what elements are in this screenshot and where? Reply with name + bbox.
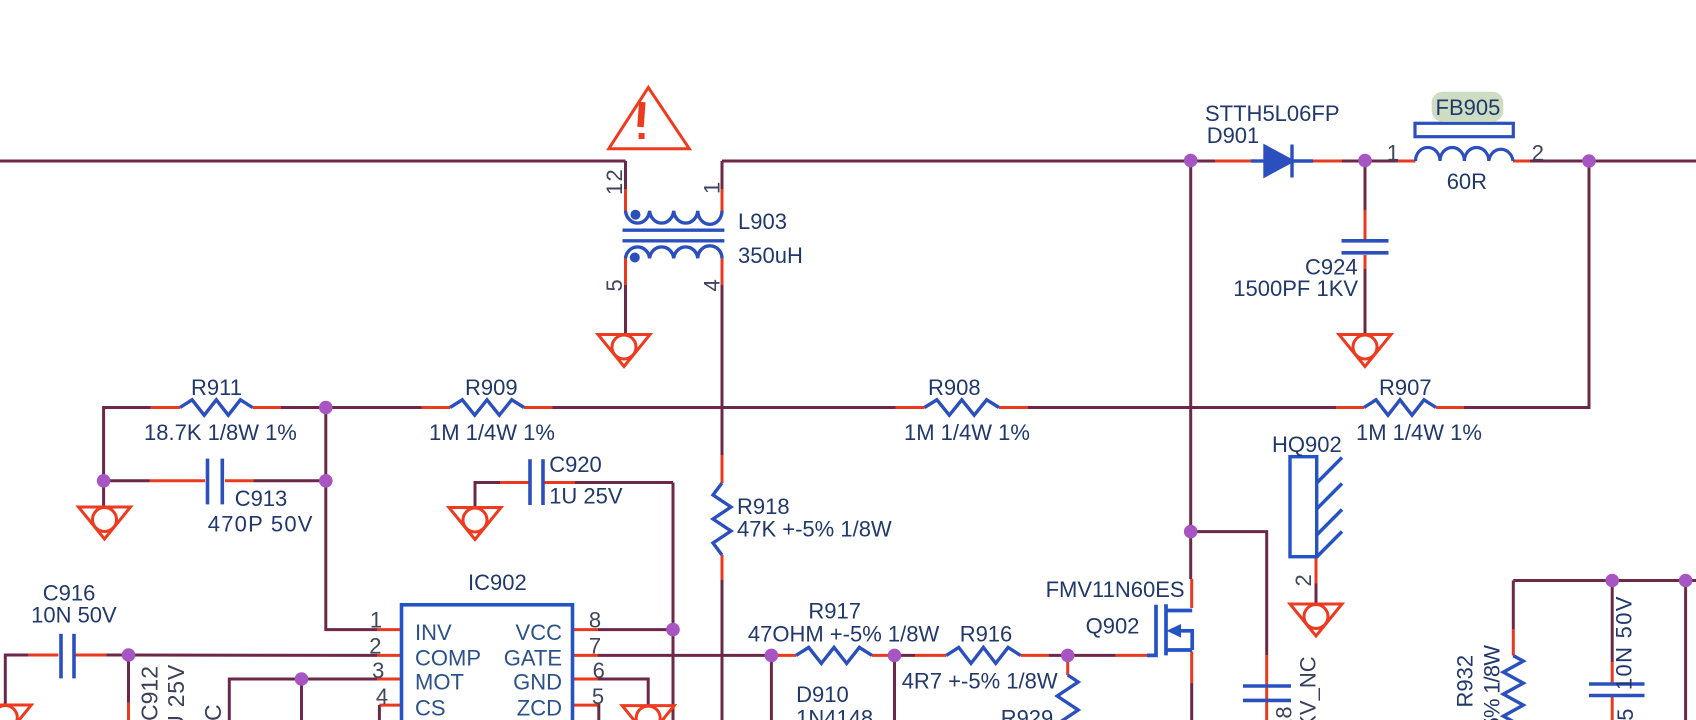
- ground C924: [1339, 335, 1391, 367]
- resistor R916: [946, 647, 1020, 663]
- wire C916 right to node D: [106, 654, 128, 657]
- ferrite bead FB905: [1415, 123, 1513, 161]
- wire L903 pin5 to ground: [624, 285, 627, 335]
- wire C918 top red lead: [1265, 655, 1268, 686]
- wire node B down to IC pin1: [326, 481, 377, 630]
- node D910 junction: [765, 649, 779, 663]
- wire C915 top red lead: [1611, 662, 1614, 684]
- wire R911 left red lead: [151, 406, 180, 409]
- wire R932 corner down maroon: [1512, 581, 1515, 630]
- wire C913 left lead maroon: [104, 479, 150, 482]
- svg-text:350uH: 350uH: [738, 243, 803, 268]
- wire R918 bottom vertical: [721, 580, 724, 720]
- svg-text:2KV_NC: 2KV_NC: [1296, 656, 1321, 720]
- wire IC pin3 branch: [229, 679, 377, 720]
- svg-text:COMP: COMP: [415, 646, 481, 671]
- node E junction pin3: [295, 672, 309, 686]
- svg-text:4: 4: [700, 279, 725, 291]
- capacitor C918: [1243, 686, 1291, 700]
- resistor R908: [925, 400, 1000, 415]
- wire C924 top maroon: [1364, 161, 1367, 210]
- wire C924 top red lead: [1364, 210, 1367, 239]
- wire R909 right red lead: [524, 406, 553, 409]
- svg-text:GND: GND: [513, 670, 562, 695]
- ground C916: [0, 705, 31, 720]
- wire C918 bottom red: [1265, 700, 1268, 720]
- svg-text:VCC: VCC: [516, 620, 563, 645]
- svg-text:10N 50V: 10N 50V: [31, 603, 117, 628]
- node H junction: [888, 649, 902, 663]
- svg-text:GATE: GATE: [504, 646, 562, 671]
- svg-text:1M 1/4W 1%: 1M 1/4W 1%: [1356, 420, 1482, 445]
- wire node D to IC pin2: [129, 654, 378, 657]
- svg-text:4R7 +-5% 1/8W: 4R7 +-5% 1/8W: [902, 669, 1058, 694]
- wire C913 ground drop: [102, 481, 105, 507]
- node A junction: [319, 401, 333, 415]
- wire C920 right lead maroon: [575, 481, 673, 484]
- wire L903 pin1 drop maroon: [721, 161, 724, 189]
- wire node H branch down: [893, 655, 896, 720]
- warning triangle: [609, 88, 690, 149]
- wire L903 pin5 red lead: [624, 256, 627, 285]
- svg-text:5: 5: [602, 279, 627, 291]
- svg-text:2: 2: [1532, 141, 1544, 166]
- capacitor C924: [1342, 241, 1389, 253]
- wire IC pin7 red stub: [573, 654, 599, 657]
- svg-text:1: 1: [700, 182, 725, 194]
- node C913 left junction: [97, 474, 111, 488]
- svg-text:1: 1: [370, 608, 382, 633]
- diode D901: [1251, 145, 1313, 178]
- node B junction: [319, 474, 333, 488]
- svg-text:R929: R929: [1001, 706, 1054, 720]
- svg-text:C913: C913: [235, 486, 288, 511]
- node G junction: [1184, 525, 1198, 539]
- resistor R929: [1057, 675, 1078, 720]
- wire R909 to R908: [553, 406, 896, 409]
- wire C913 right to node B: [254, 479, 326, 482]
- svg-text:18.7K 1/8W 1%: 18.7K 1/8W 1%: [144, 420, 297, 445]
- wire IC pin4 red stub: [379, 704, 402, 707]
- svg-text:47K +-5% 1/8W: 47K +-5% 1/8W: [737, 517, 892, 542]
- wire C920 left corner to ground: [475, 483, 500, 508]
- wire node G down to Q902 drain maroon: [1189, 532, 1192, 579]
- svg-text:FB905: FB905: [1436, 95, 1501, 120]
- svg-text:60R: 60R: [1447, 169, 1487, 194]
- node D junction C916: [122, 648, 136, 662]
- wire R908 to R907: [1028, 406, 1336, 409]
- svg-text:C: C: [200, 703, 226, 720]
- wire R908 right red lead: [999, 406, 1028, 409]
- wire R907 left red lead: [1336, 406, 1364, 409]
- svg-text:1U 25V: 1U 25V: [549, 484, 623, 509]
- ground C913: [79, 507, 131, 539]
- wire R929 top red lead: [1066, 655, 1069, 675]
- svg-text:INV: INV: [415, 620, 452, 645]
- node C junction pin8: [666, 623, 680, 637]
- wire L903 pin12 drop maroon: [624, 161, 627, 189]
- wire node cathode to FB905: [1342, 160, 1398, 163]
- svg-text:D910: D910: [796, 682, 849, 707]
- wire C924 to ground: [1364, 269, 1367, 335]
- wire node A to R909: [326, 406, 422, 409]
- svg-text:C915: C915: [1613, 707, 1638, 720]
- wire main vertical from node F: [1189, 161, 1192, 532]
- svg-text:5: 5: [592, 684, 604, 709]
- svg-text:R909: R909: [465, 375, 518, 400]
- wire C918 mid red: [1265, 686, 1268, 700]
- wire R917 left red lead: [775, 654, 796, 657]
- wire IC pin2 red stub: [377, 654, 402, 657]
- wire Q902 drain red lead: [1190, 579, 1193, 608]
- wire D901 cathode red lead: [1313, 160, 1342, 163]
- svg-text:R932: R932: [1453, 655, 1478, 708]
- inductor L903: [623, 210, 725, 263]
- wire R907 right red lead: [1436, 406, 1464, 409]
- svg-text:1M 1/4W 1%: 1M 1/4W 1%: [429, 420, 555, 445]
- heatsink HQ902: [1290, 457, 1342, 557]
- wire FB905 pin2 red lead: [1513, 160, 1530, 163]
- wire IC pin8 red stub: [573, 628, 599, 631]
- wire IC pin8 to node C: [598, 628, 673, 631]
- wire D910 branch down: [770, 655, 773, 720]
- svg-text:R916: R916: [960, 622, 1013, 647]
- wire IC pin6 to ground: [598, 679, 648, 706]
- wire IC pin3 red stub: [377, 678, 402, 681]
- wire R932 top red lead: [1512, 629, 1515, 656]
- wire IC pin5 drop: [597, 705, 601, 720]
- svg-text:ZCD: ZCD: [517, 695, 562, 720]
- wire right branch down to R907: [1464, 161, 1589, 408]
- ground L903 pin5: [598, 335, 650, 367]
- svg-text:C920: C920: [549, 452, 602, 477]
- svg-text:6: 6: [593, 658, 605, 683]
- svg-text:R908: R908: [928, 375, 981, 400]
- FB905 green highlight: [1432, 92, 1504, 122]
- node FB right junction: [1582, 154, 1596, 168]
- svg-text:+-5% 1/8W: +-5% 1/8W: [1480, 645, 1505, 720]
- wire R916 right red lead: [1021, 654, 1049, 657]
- wire right edge vertical: [1684, 581, 1687, 720]
- wire IC pin4 drop: [378, 705, 381, 720]
- wire Q902 source down: [1190, 683, 1193, 720]
- svg-text:R907: R907: [1379, 375, 1432, 400]
- wire R916 left red lead: [915, 654, 946, 657]
- wire main bus middle segment: [722, 160, 1215, 163]
- svg-text:R917: R917: [808, 599, 861, 624]
- wire main bus right segment: [1530, 160, 1696, 163]
- capacitor C915: [1589, 684, 1645, 696]
- wire R911 right red lead: [253, 406, 282, 409]
- wire D901 anode red lead: [1215, 160, 1251, 163]
- wire Q902 source red lead: [1190, 652, 1193, 684]
- node C915 junction: [1605, 574, 1619, 588]
- wire C915 drop maroon: [1611, 581, 1614, 663]
- svg-text:D901: D901: [1207, 123, 1260, 148]
- resistor R917: [796, 647, 872, 663]
- resistor R932: [1503, 656, 1523, 720]
- svg-text:1U 25V: 1U 25V: [163, 664, 189, 720]
- svg-text:4: 4: [376, 684, 388, 709]
- node F junction: [1184, 154, 1198, 168]
- svg-text:Q902: Q902: [1086, 614, 1140, 639]
- wire C912 red stub: [127, 703, 130, 720]
- svg-text:1: 1: [1387, 141, 1399, 166]
- svg-text:7: 7: [589, 634, 601, 659]
- wire node A down to node B: [324, 408, 327, 481]
- node I junction: [1061, 649, 1075, 663]
- svg-text:HQ902: HQ902: [1272, 432, 1342, 457]
- wire Q902 gate red lead: [1116, 654, 1147, 657]
- wire C916 ground corner: [5, 655, 28, 705]
- capacitor C920: [530, 459, 543, 505]
- wire FB905 pin1 red lead: [1398, 160, 1416, 163]
- svg-text:R918: R918: [737, 494, 790, 519]
- wire C913 right red lead: [225, 479, 254, 482]
- svg-text:10N 50V: 10N 50V: [1612, 595, 1637, 690]
- wire R917 right red lead: [872, 654, 895, 657]
- wire IC pin5 red stub: [573, 704, 599, 707]
- wire L903 pin4 down to R918: [721, 285, 724, 455]
- capacitor C913: [208, 459, 223, 505]
- svg-text:CS: CS: [415, 695, 446, 720]
- wire IC pin1 red stub: [377, 628, 402, 631]
- wire L903 pin1 red lead: [721, 189, 724, 211]
- svg-text:R911: R911: [191, 375, 242, 400]
- svg-text:1500PF 1KV: 1500PF 1KV: [1233, 276, 1358, 301]
- wire L903 pin4 red lead: [721, 256, 724, 285]
- wire C915 bottom red lead: [1611, 696, 1614, 720]
- svg-text:C912: C912: [136, 666, 162, 720]
- svg-text:1M 1/4W 1%: 1M 1/4W 1%: [904, 420, 1030, 445]
- svg-text:2: 2: [369, 634, 381, 659]
- node right edge junction: [1679, 574, 1693, 588]
- wire HQ902 pin2 to ground: [1315, 584, 1318, 605]
- wire R911 left corner down: [104, 408, 151, 481]
- wire main bus left segment: [0, 160, 626, 163]
- wire C920 right red lead: [544, 481, 575, 484]
- resistor R911: [180, 400, 253, 415]
- capacitor C916: [61, 634, 74, 679]
- svg-text:470P 50V: 470P 50V: [208, 512, 314, 537]
- node C924 junction: [1358, 154, 1372, 168]
- wire GATE row maroon 1: [598, 654, 779, 657]
- resistor R909: [450, 400, 524, 415]
- wire HQ902 pin2 red stub: [1315, 557, 1318, 584]
- svg-text:IC902: IC902: [468, 570, 527, 595]
- svg-text:8: 8: [589, 608, 601, 633]
- resistor R918: [713, 483, 731, 555]
- svg-text:L903: L903: [738, 209, 787, 234]
- ground HQ902: [1290, 604, 1342, 636]
- wire node E drop: [300, 679, 303, 720]
- svg-text:47OHM +-5% 1/8W: 47OHM +-5% 1/8W: [748, 622, 940, 647]
- wire C920 net vertical: [672, 483, 675, 720]
- wire C913 left red lead: [150, 479, 206, 482]
- wire R909 left red lead: [422, 406, 451, 409]
- wire R911 right to node A: [281, 406, 326, 409]
- wire bottom right net: [1513, 579, 1696, 582]
- wire node H to R916 maroon: [895, 654, 916, 657]
- svg-text:C918: C918: [1272, 706, 1297, 720]
- wire C924 bottom red lead: [1364, 255, 1367, 269]
- wire R908 left red lead: [896, 406, 925, 409]
- wire R916 to node I maroon: [1049, 654, 1068, 657]
- svg-text:2: 2: [1291, 574, 1316, 586]
- resistor R907: [1364, 400, 1436, 415]
- svg-text:1N4148: 1N4148: [796, 706, 873, 720]
- ground IC GND: [622, 706, 674, 720]
- wire IC pin6 red stub: [573, 678, 599, 681]
- svg-text:3: 3: [372, 658, 384, 683]
- IC902 box: [402, 605, 573, 720]
- svg-text:12: 12: [602, 168, 627, 195]
- svg-text:MOT: MOT: [415, 670, 464, 695]
- wire C916 left red lead: [29, 654, 59, 657]
- wire R918 bottom red lead: [721, 555, 724, 580]
- wire C916 right red lead: [75, 654, 106, 657]
- wire node I to gate maroon: [1068, 654, 1116, 657]
- wire L903 pin12 red lead: [624, 189, 627, 211]
- ground C920: [449, 508, 501, 540]
- wire C920 left red lead: [500, 481, 529, 484]
- wire R918 top red lead: [721, 455, 724, 483]
- wire node G branch right down: [1191, 532, 1267, 655]
- wire node D down C912: [127, 655, 130, 703]
- svg-text:FMV11N60ES: FMV11N60ES: [1046, 577, 1185, 602]
- transistor Q902: [1147, 604, 1192, 655]
